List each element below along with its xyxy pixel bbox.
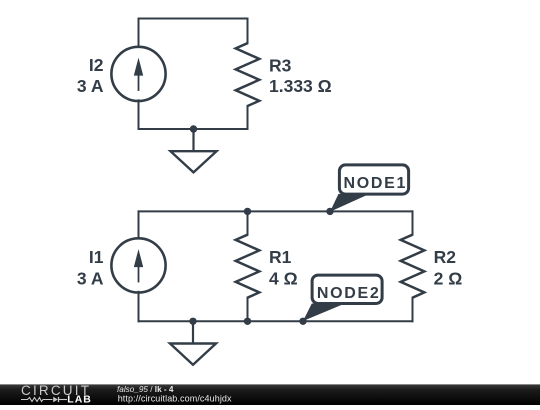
label I2 [89, 55, 104, 75]
footer title: falso_95 / lk - 4 [117, 385, 174, 394]
wire R3 upper lead [247, 19, 249, 44]
svg-text:LAB: LAB [67, 393, 92, 405]
wire R2 upper lead [412, 211, 414, 234]
label R2 [434, 247, 457, 267]
CircuitLab logo schematic glyph (resistor + diode wire) [21, 397, 67, 402]
junction dot R1 top [244, 208, 251, 215]
node NODE1 text [343, 175, 407, 192]
value 1.333 ohm (R3) [269, 76, 332, 96]
CircuitLab logo text LAB [67, 393, 92, 405]
wire I1 lower lead [138, 292, 140, 322]
node NODE2 junction dot [299, 318, 306, 325]
value 4 ohm (R1) [269, 268, 298, 288]
wire top (I1 to R2 top) [139, 210, 413, 212]
CircuitLab logo text CIRCUIT [21, 383, 91, 398]
svg-text:3 A: 3 A [77, 76, 104, 96]
svg-text:1.333 Ω: 1.333 Ω [269, 76, 332, 96]
wire bottom (I2 to R3 bottom) [139, 128, 248, 130]
current source I1 [111, 238, 165, 292]
current source I2 [111, 47, 165, 101]
wire bottom (I1 to R2 bottom) [139, 320, 413, 322]
svg-text:NODE2: NODE2 [317, 285, 381, 302]
svg-text:R2: R2 [434, 247, 457, 267]
junction dot R1 bottom [244, 318, 251, 325]
value 3 A (I1) [77, 268, 104, 288]
wire I1 upper lead [138, 211, 140, 239]
svg-text:R1: R1 [269, 247, 292, 267]
resistor R3 [236, 43, 260, 106]
svg-text:4 Ω: 4 Ω [269, 268, 298, 288]
wire I2 upper lead [138, 19, 140, 48]
svg-text:R3: R3 [269, 56, 292, 76]
value 2 ohm (R2) [434, 268, 463, 288]
wire R1 lower lead [247, 298, 249, 322]
wire I2 lower lead [138, 100, 140, 129]
junction dot (top circuit ground node) [190, 125, 197, 132]
footer bar [0, 384, 540, 405]
wire top (I2 top to R3 top) [139, 18, 248, 20]
ground (bottom circuit) [170, 321, 216, 364]
resistor R2 [401, 235, 425, 298]
node NODE1 callout box [339, 165, 408, 194]
node NODE2 text [317, 285, 381, 302]
label R3 [269, 56, 292, 76]
svg-text:http://circuitlab.com/c4uhjdx: http://circuitlab.com/c4uhjdx [118, 393, 232, 403]
svg-text:I1: I1 [89, 247, 104, 267]
label R1 [269, 247, 292, 267]
node NODE1 tail [330, 194, 369, 212]
wire R3 lower lead [247, 106, 249, 129]
label I1 [89, 247, 104, 267]
wire R1 upper lead [247, 211, 249, 234]
junction dot ground node (bottom circuit) [189, 318, 196, 325]
svg-text:NODE1: NODE1 [343, 175, 407, 192]
resistor R1 [236, 235, 260, 298]
node NODE2 callout box [312, 275, 382, 303]
svg-text:2 Ω: 2 Ω [434, 268, 463, 288]
svg-text:I2: I2 [89, 55, 104, 75]
ground (top circuit) [171, 129, 217, 172]
node NODE1 junction dot [326, 208, 333, 215]
footer url [118, 393, 232, 403]
svg-text:3 A: 3 A [77, 268, 104, 288]
value 3 A (I2) [77, 76, 104, 96]
node NODE2 tail [303, 304, 344, 322]
wire R2 lower lead [412, 298, 414, 322]
